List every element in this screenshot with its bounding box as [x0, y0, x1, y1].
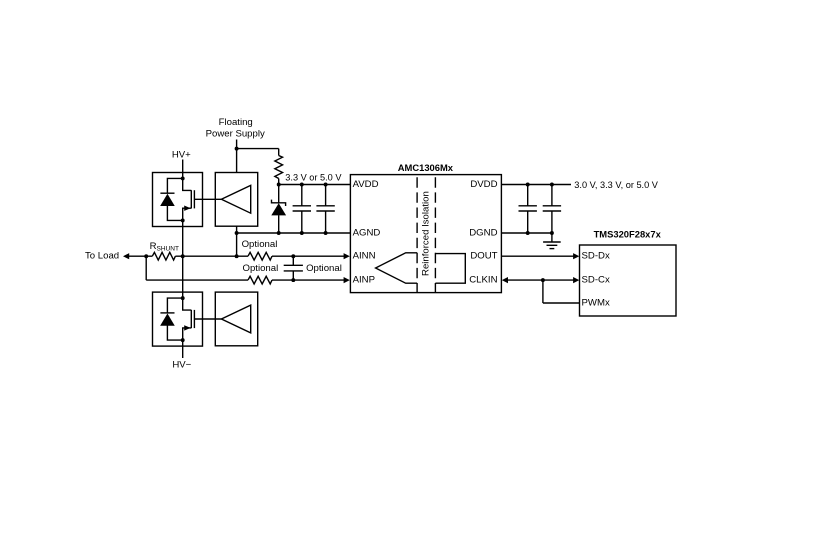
svg-text:Power Supply: Power Supply: [206, 128, 265, 139]
svg-text:AINP: AINP: [353, 275, 375, 286]
svg-text:SD-Cx: SD-Cx: [582, 275, 610, 286]
svg-text:HV−: HV−: [172, 360, 191, 371]
svg-text:Optional: Optional: [306, 263, 342, 274]
svg-text:SD-Dx: SD-Dx: [582, 251, 610, 262]
svg-text:TMS320F28x7x: TMS320F28x7x: [594, 229, 662, 240]
svg-text:AMC1306Mx: AMC1306Mx: [398, 162, 454, 173]
svg-text:CLKIN: CLKIN: [469, 275, 497, 286]
svg-text:Optional: Optional: [242, 239, 278, 250]
svg-text:To Load: To Load: [85, 251, 119, 262]
svg-text:Floating: Floating: [219, 117, 253, 128]
svg-text:PWMx: PWMx: [582, 298, 610, 309]
svg-text:3.0 V, 3.3 V, or 5.0 V: 3.0 V, 3.3 V, or 5.0 V: [574, 180, 658, 190]
svg-text:3.3 V or 5.0 V: 3.3 V or 5.0 V: [285, 172, 342, 182]
svg-text:DOUT: DOUT: [470, 251, 497, 262]
svg-text:Optional: Optional: [243, 263, 279, 274]
svg-text:AINN: AINN: [353, 251, 376, 262]
svg-text:DGND: DGND: [469, 228, 497, 239]
svg-text:Reinforced Isolation: Reinforced Isolation: [420, 191, 431, 276]
svg-text:AGND: AGND: [353, 228, 381, 239]
svg-text:HV+: HV+: [172, 150, 191, 161]
svg-text:AVDD: AVDD: [353, 179, 379, 190]
svg-text:DVDD: DVDD: [470, 179, 497, 190]
